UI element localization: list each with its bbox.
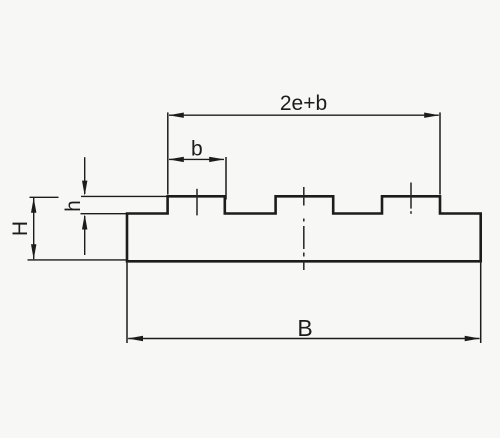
extension line h bottom (body top level) [81, 213, 127, 215]
profile outline (bar with three teeth) [127, 196, 481, 261]
arrowhead b left [169, 157, 184, 162]
svg-text:B: B [297, 315, 312, 341]
centerline tooth 3 [410, 183, 412, 214]
arrowhead b right [209, 157, 224, 162]
extension line B left (below body) [126, 263, 128, 343]
svg-text:H: H [9, 221, 32, 236]
extension line H top [30, 196, 59, 198]
arrowhead 2e+b left [169, 113, 184, 118]
arrowhead H bottom (pointing down) [31, 244, 36, 259]
arrowhead H top (pointing up) [31, 198, 36, 213]
arrowhead 2e+b right [424, 113, 439, 118]
extension line h top (tooth top level) [81, 195, 167, 197]
centerline tooth 2 [303, 187, 305, 270]
dimension line H [33, 198, 35, 259]
svg-text:2e+b: 2e+b [280, 92, 327, 115]
dimension line 2e+b [169, 114, 439, 116]
dimension h lower arrow (pointing up) [84, 216, 86, 255]
dimension line B [128, 338, 479, 340]
dimension line b [169, 158, 224, 160]
svg-text:b: b [191, 138, 203, 161]
arrowhead B left [128, 336, 143, 341]
extension line B right (below body) [480, 263, 482, 343]
extension line right of dimension 2e+b [439, 112, 441, 194]
dimension h upper arrow (pointing down) [84, 157, 86, 194]
centerline tooth 1 [196, 189, 198, 216]
extension line left of dimension 2e+b and b [167, 112, 169, 194]
extension line right of dimension b [225, 157, 227, 200]
svg-text:h: h [62, 200, 85, 212]
extension line H/B bottom (body bottom level, extended left) [28, 259, 128, 261]
arrowhead B right [465, 336, 480, 341]
